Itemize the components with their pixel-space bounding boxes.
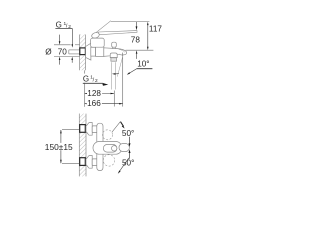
wall socket square: [80, 48, 86, 55]
label 10deg: [137, 60, 153, 69]
wall face extension line down to dims: [84, 70, 86, 107]
escutcheon cone (side): [86, 43, 91, 60]
body block (side): [96, 47, 104, 57]
dia70 arrow bottom: [59, 57, 61, 65]
svg-text:G: G: [83, 75, 89, 84]
pipe stub in wall: [69, 50, 80, 54]
second arrow bottom at x72: [71, 57, 73, 63]
lever raised position line: [93, 21, 111, 35]
svg-text:117: 117: [149, 25, 162, 34]
lever handle closed (side): [99, 31, 138, 35]
bottom escutcheon front: [86, 156, 92, 169]
dia70 ext line bottom: [54, 56, 80, 58]
bottom wall socket square: [80, 158, 86, 166]
lever recess pill: [103, 145, 117, 153]
bottom extension line (spout outlet): [126, 49, 154, 51]
top union nut front: [92, 126, 97, 133]
50deg top ray: [112, 122, 121, 133]
dia70 ext line top: [54, 44, 71, 46]
svg-text:150±15: 150±15: [45, 142, 73, 152]
dim 150+-15 line: [45, 130, 76, 163]
dim 78 upper outside arrow: [136, 22, 138, 30]
leader G1/2 down arrow: [72, 28, 74, 47]
extension line B (128): [115, 62, 117, 89]
top escutcheon front: [86, 123, 92, 136]
label G1/2 lower: [82, 74, 108, 86]
top wall socket square: [80, 125, 86, 133]
svg-text:50°: 50°: [122, 129, 134, 138]
10deg arc arrow left: [112, 73, 119, 75]
cartridge cap: [91, 38, 105, 47]
dim 117 line: [147, 22, 149, 50]
50deg top arc arrow: [121, 122, 124, 127]
dim 166: [85, 99, 123, 108]
svg-text:128: 128: [87, 89, 101, 98]
svg-text:166: 166: [87, 99, 101, 108]
50deg bottom ray with arrow: [118, 158, 129, 174]
dashed circle top (handle pos): [103, 130, 113, 140]
union nut (side): [91, 47, 96, 56]
svg-text:70: 70: [58, 47, 68, 56]
wall section: [80, 35, 86, 71]
svg-text:2: 2: [68, 24, 71, 30]
dashed circle bottom (handle pos): [103, 155, 114, 166]
body capsule front: [93, 142, 122, 155]
svg-text:78: 78: [131, 35, 141, 44]
tilted 10deg line D: [117, 56, 123, 76]
bottom inlet housing: [97, 153, 103, 171]
bottom union nut front: [92, 159, 97, 166]
lever hub: [91, 32, 100, 39]
top inlet housing: [97, 123, 103, 142]
50deg top leader down arrow: [129, 137, 131, 147]
vertical ref line A (stream): [111, 62, 113, 89]
svg-text:Ø: Ø: [45, 47, 52, 56]
dim 128: [85, 89, 115, 98]
dim 150+-15 ext bottom: [62, 162, 79, 164]
label G1/2 top: [55, 21, 72, 31]
handle stub right: [119, 144, 129, 152]
wall section front: [79, 114, 86, 177]
svg-text:50°: 50°: [122, 158, 134, 167]
extension line C (166): [122, 53, 124, 107]
dia70 arrow top: [59, 35, 61, 45]
dim 78 lower outside arrow: [136, 50, 138, 59]
svg-text:10°: 10°: [137, 60, 149, 69]
top extension line (117): [111, 21, 149, 23]
inner circle: [112, 146, 117, 151]
diverter knob: [112, 42, 117, 49]
mousseur: [110, 53, 117, 61]
50deg bottom leader up arrow: [129, 149, 131, 158]
spout (side): [104, 48, 127, 57]
dim 150+-15 ext top: [62, 129, 79, 131]
10deg leader with arrow: [127, 69, 137, 75]
